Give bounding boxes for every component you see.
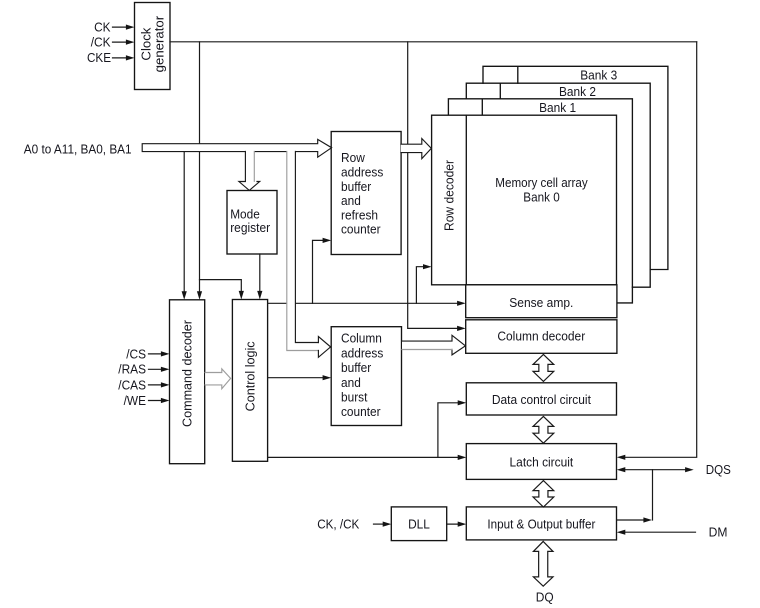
svg-text:buffer: buffer	[341, 360, 372, 375]
arrowhead into column decoder left	[457, 326, 466, 331]
wire branch to row address buffer	[313, 240, 328, 303]
memory bank 3 (back outline)	[483, 66, 668, 269]
double arrow column decoder / data control	[533, 354, 554, 381]
svg-text:/CK: /CK	[91, 34, 111, 49]
arrowhead into data control circuit left	[458, 400, 467, 405]
bus column address buffer to column decoder (hollow arrow)	[402, 335, 465, 355]
svg-text:/RAS: /RAS	[118, 362, 146, 377]
arrowhead /WE	[161, 398, 170, 403]
column decoder block	[466, 320, 617, 354]
svg-text:Row decoder: Row decoder	[442, 159, 457, 231]
control logic block	[232, 300, 267, 462]
arrowhead into column address buffer	[323, 375, 332, 380]
svg-text:CKE: CKE	[87, 50, 111, 65]
memory bank 0 box with row decoder column	[432, 115, 617, 285]
svg-text:Data control circuit: Data control circuit	[492, 392, 591, 407]
wire clock drop to command decoder	[199, 42, 201, 296]
bus branch into mode register (hollow arrow)	[239, 151, 260, 191]
clock generator block U1	[135, 3, 171, 90]
wire control logic to latch circuit	[268, 456, 463, 458]
arrowhead CKE	[126, 55, 135, 60]
DLL block	[391, 507, 446, 541]
wire clock branch to control logic	[200, 280, 242, 296]
wire branch to row decoder	[416, 267, 428, 304]
wire I/O buffer up to DQS node	[617, 470, 653, 520]
arrowhead mode register into control logic	[257, 291, 262, 300]
wire DM input	[620, 531, 695, 533]
arrowhead /RAS	[161, 367, 170, 372]
svg-text:Column decoder: Column decoder	[497, 329, 585, 344]
svg-text:burst: burst	[341, 390, 368, 405]
svg-text:refresh: refresh	[341, 207, 378, 222]
wire clock drop to latch circuit	[620, 42, 697, 458]
svg-text:DQ: DQ	[536, 590, 554, 605]
arrowhead DQS into latch right	[617, 467, 626, 472]
double arrow DQ port	[533, 541, 553, 586]
bus row address buffer to row decoder (hollow arrow)	[401, 139, 431, 159]
wire branch to data control circuit	[438, 403, 463, 458]
wire /CS	[149, 353, 167, 355]
wire CK input	[113, 26, 132, 28]
wire clock distribution horizontal	[170, 41, 697, 43]
arrowhead into DLL left	[383, 522, 392, 527]
svg-text:buffer: buffer	[341, 179, 372, 194]
svg-text:Bank 1: Bank 1	[539, 100, 576, 115]
svg-text:Latch circuit: Latch circuit	[510, 455, 574, 470]
svg-text:and: and	[341, 193, 361, 208]
svg-text:CK: CK	[94, 19, 111, 34]
bus command decoder to control logic (hollow arrow, gray)	[205, 369, 231, 389]
svg-text:and: and	[341, 375, 361, 390]
wire /WE	[149, 400, 167, 402]
svg-text:Sense amp.: Sense amp.	[509, 295, 573, 310]
svg-text:address: address	[341, 345, 384, 360]
sense amplifier block	[466, 285, 617, 318]
svg-text:address: address	[341, 165, 384, 180]
svg-text:generator: generator	[151, 15, 166, 72]
bus branch to column address buffer (hollow elbow arrow)	[287, 151, 331, 358]
double arrow data control / latch	[533, 416, 554, 443]
wire mode register to control logic	[259, 254, 261, 296]
svg-text:counter: counter	[341, 222, 381, 237]
command input wires	[149, 354, 167, 401]
input and output buffer block	[466, 507, 616, 540]
svg-text:/CS: /CS	[126, 346, 146, 361]
svg-text:Column: Column	[341, 331, 382, 346]
svg-text:DLL: DLL	[408, 516, 430, 531]
wire control logic to sense amp	[268, 302, 463, 304]
arrowhead clock into command decoder	[197, 291, 202, 300]
double arrow latch / I/O buffer	[533, 481, 554, 507]
svg-text:Bank 2: Bank 2	[559, 84, 596, 99]
svg-text:Bank 3: Bank 3	[580, 68, 617, 83]
svg-text:Command decoder: Command decoder	[180, 319, 195, 427]
wire /CAS	[149, 384, 167, 386]
wire /RAS	[149, 368, 167, 370]
svg-text:Bank 0: Bank 0	[523, 189, 559, 204]
wire clock drop to column decoder	[408, 42, 462, 329]
arrowhead DLL into I/O buffer left	[458, 522, 467, 527]
label Memory cell array Bank 0	[495, 175, 588, 204]
memory bank 1 (outline)	[448, 99, 632, 303]
data control circuit block	[466, 383, 616, 415]
wire /CK input	[113, 41, 132, 43]
arrowhead into sense amp left	[457, 301, 466, 306]
row address buffer and refresh counter block	[331, 132, 401, 255]
arrowhead CK	[126, 25, 135, 30]
arrowhead /CS	[161, 351, 170, 356]
arrowhead clock into control logic	[239, 291, 244, 300]
arrowhead into row decoder left	[423, 264, 432, 269]
command decoder block	[170, 300, 205, 464]
svg-text:counter: counter	[341, 404, 381, 419]
svg-text:DM: DM	[709, 525, 728, 540]
svg-text:A0 to A11, BA0, BA1: A0 to A11, BA0, BA1	[24, 141, 132, 156]
svg-text:/WE: /WE	[124, 393, 147, 408]
DOUBLE ARROWS (hollow, vertical)	[533, 354, 554, 586]
arrowhead into row address buffer left	[323, 238, 332, 243]
svg-text:Memory cell array: Memory cell array	[495, 175, 588, 190]
bus A0-A11 address (hollow arrow)	[142, 139, 331, 157]
svg-text:register: register	[230, 220, 270, 235]
memory bank 2 (outline)	[466, 83, 650, 287]
svg-text:DQS: DQS	[706, 462, 731, 477]
arrowhead I/O to DQS node	[643, 517, 652, 522]
svg-text:CK, /CK: CK, /CK	[317, 516, 359, 531]
svg-text:/CAS: /CAS	[118, 377, 146, 392]
ARROWHEADS (solid)	[126, 25, 694, 535]
wire control logic to column address buffer	[268, 377, 328, 379]
arrowhead address into command decoder	[182, 291, 187, 300]
svg-text:Row: Row	[341, 150, 365, 165]
wire address tap to command decoder	[183, 151, 185, 296]
arrowhead into latch circuit left	[458, 455, 467, 460]
arrowhead /CK	[126, 40, 135, 45]
arrowhead clock into latch right	[617, 455, 626, 460]
latch circuit block	[466, 444, 616, 480]
arrowhead /CAS	[161, 382, 170, 387]
wire CK,/CK to DLL	[374, 523, 388, 525]
arrowhead DM into I/O buffer right	[617, 530, 626, 535]
mode register block	[227, 191, 277, 255]
svg-text:Input & Output buffer: Input & Output buffer	[487, 516, 596, 531]
wire DLL to I/O buffer	[447, 523, 463, 525]
wire CKE input	[113, 57, 132, 59]
svg-text:Control logic: Control logic	[242, 341, 257, 411]
wire DQS bidirectional	[620, 469, 690, 471]
column address buffer and burst counter block	[331, 327, 401, 426]
arrowhead DQS outward	[685, 467, 694, 472]
